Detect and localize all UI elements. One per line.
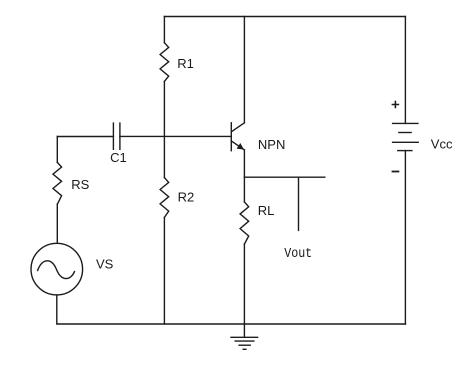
svg-text:Vout: Vout (284, 246, 312, 262)
svg-text:Vcc: Vcc (431, 137, 453, 152)
svg-text:R2: R2 (178, 190, 195, 205)
svg-text:C1: C1 (110, 150, 127, 165)
svg-text:RL: RL (258, 203, 275, 218)
svg-text:VS: VS (96, 256, 114, 271)
svg-text:NPN: NPN (258, 137, 285, 152)
svg-text:RS: RS (71, 177, 89, 192)
svg-text:R1: R1 (177, 56, 194, 71)
